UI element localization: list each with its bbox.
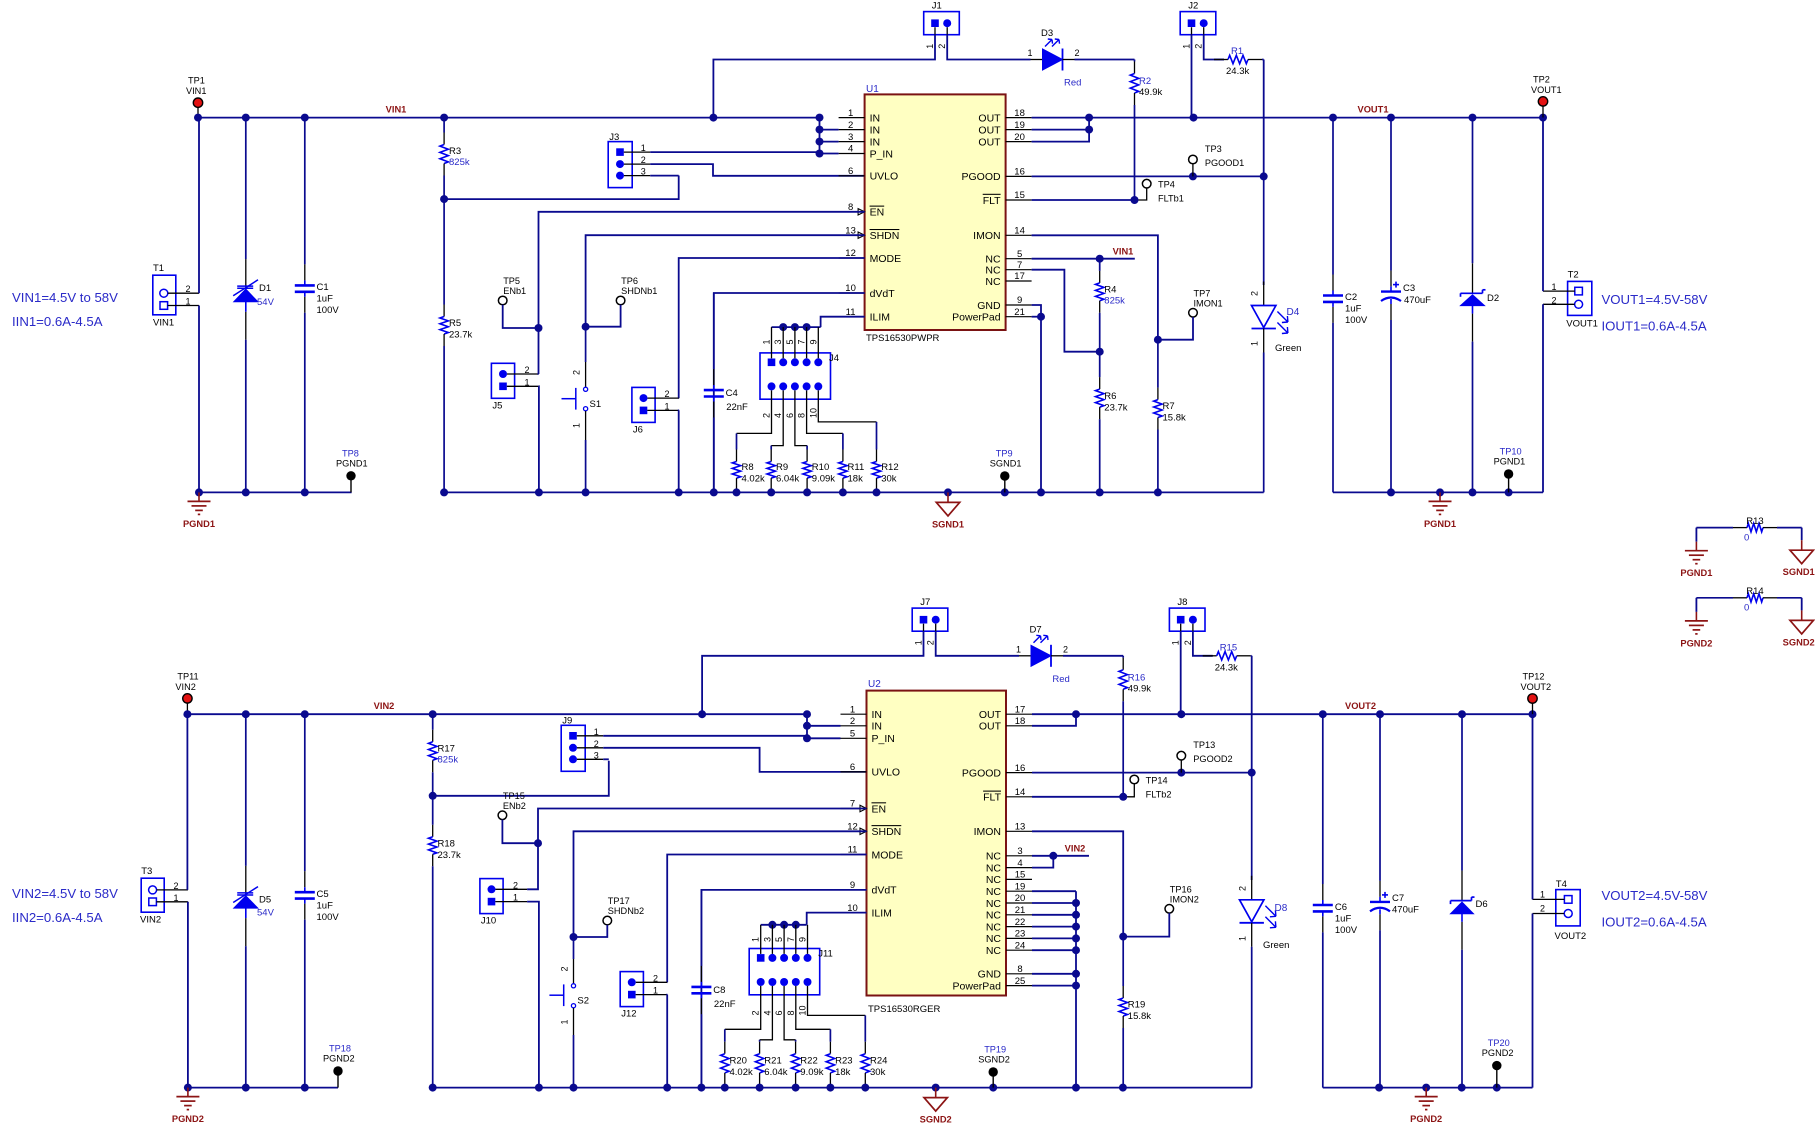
svg-text:R5: R5 bbox=[449, 318, 461, 329]
svg-text:2: 2 bbox=[513, 880, 518, 890]
testpoint TP16 bbox=[1165, 905, 1174, 914]
svg-text:22: 22 bbox=[1015, 917, 1026, 928]
svg-text:TP8: TP8 bbox=[342, 448, 359, 458]
wire PGND1 right rail bbox=[1333, 491, 1543, 493]
wire D3 to R2 bbox=[1063, 59, 1075, 61]
wire J3 pin3 bbox=[650, 175, 679, 177]
connector T3 bbox=[141, 878, 164, 912]
svg-text:NC: NC bbox=[985, 276, 1001, 288]
svg-text:GND: GND bbox=[977, 300, 1001, 312]
svg-text:TP19: TP19 bbox=[984, 1045, 1006, 1055]
svg-text:1: 1 bbox=[173, 893, 178, 903]
svg-text:FLTb2: FLTb2 bbox=[1146, 789, 1172, 799]
svg-text:PGND1: PGND1 bbox=[183, 519, 215, 529]
wire J10 pin1 to SGND2 bbox=[527, 902, 539, 1088]
svg-text:16: 16 bbox=[1014, 167, 1025, 178]
svg-text:NC: NC bbox=[986, 886, 1002, 898]
wire J1 pin1 to VIN1 bbox=[713, 35, 935, 118]
svg-text:6: 6 bbox=[774, 1010, 784, 1015]
svg-text:17: 17 bbox=[1014, 271, 1025, 282]
U2 right pins bbox=[1006, 713, 1032, 715]
svg-text:C3: C3 bbox=[1403, 283, 1415, 294]
svg-text:30k: 30k bbox=[881, 474, 897, 485]
svg-text:19: 19 bbox=[1015, 881, 1026, 892]
svg-text:IOUT1=0.6A-4.5A: IOUT1=0.6A-4.5A bbox=[1602, 319, 1707, 334]
svg-text:NC: NC bbox=[986, 898, 1002, 910]
svg-text:18: 18 bbox=[1014, 108, 1025, 119]
svg-text:10: 10 bbox=[798, 1005, 808, 1015]
svg-text:VIN1: VIN1 bbox=[153, 318, 174, 329]
resistor R15 bbox=[1203, 655, 1213, 657]
ground PGND2 bbox=[187, 1088, 189, 1097]
svg-text:IN: IN bbox=[872, 721, 883, 733]
testpoint TP4 bbox=[1142, 179, 1151, 188]
wire VIN2 rail bbox=[187, 713, 807, 715]
svg-text:VOUT2=4.5V-58V: VOUT2=4.5V-58V bbox=[1602, 888, 1708, 903]
svg-text:VIN2: VIN2 bbox=[140, 914, 161, 925]
LED D8 bbox=[1251, 773, 1253, 880]
svg-text:PGND1: PGND1 bbox=[1494, 457, 1526, 467]
svg-text:49.9k: 49.9k bbox=[1139, 87, 1162, 98]
testpoint TP14 bbox=[1130, 775, 1139, 784]
connector T1 bbox=[153, 275, 176, 315]
svg-text:J10: J10 bbox=[481, 916, 496, 927]
U1 left pins bbox=[839, 117, 865, 119]
svg-text:1uF: 1uF bbox=[1345, 304, 1362, 315]
svg-text:1: 1 bbox=[1027, 48, 1032, 58]
wire R13 right to SGND1 bbox=[1801, 528, 1803, 541]
svg-text:14: 14 bbox=[1015, 787, 1026, 798]
svg-text:1: 1 bbox=[594, 727, 599, 737]
svg-text:VOUT1=4.5V-58V: VOUT1=4.5V-58V bbox=[1602, 292, 1708, 307]
svg-text:VIN1: VIN1 bbox=[186, 86, 206, 96]
svg-text:EN: EN bbox=[870, 207, 885, 219]
svg-text:5: 5 bbox=[774, 937, 784, 942]
svg-text:2: 2 bbox=[1540, 904, 1545, 914]
testpoint TP17 bbox=[603, 916, 612, 925]
resistor R20 bbox=[724, 1029, 726, 1041]
svg-text:R24: R24 bbox=[870, 1056, 887, 1067]
svg-text:470uF: 470uF bbox=[1404, 295, 1431, 306]
wire J8 pin1 to OUT bbox=[1180, 631, 1182, 714]
wire T4 pin1 to VOUT2 bbox=[1532, 714, 1534, 899]
svg-text:23: 23 bbox=[1015, 929, 1026, 940]
svg-text:1: 1 bbox=[513, 893, 518, 903]
svg-text:8: 8 bbox=[797, 413, 807, 418]
svg-text:R3: R3 bbox=[449, 146, 461, 157]
svg-text:UVLO: UVLO bbox=[872, 767, 901, 779]
svg-text:21: 21 bbox=[1014, 307, 1025, 318]
svg-text:PGND1: PGND1 bbox=[1424, 519, 1456, 529]
testpoint TP5 bbox=[498, 296, 507, 305]
svg-text:17: 17 bbox=[1015, 704, 1026, 715]
wire NC19-NC24 join column bbox=[1032, 890, 1076, 892]
svg-text:3: 3 bbox=[594, 750, 599, 760]
svg-text:IIN1=0.6A-4.5A: IIN1=0.6A-4.5A bbox=[12, 314, 103, 329]
svg-text:R21: R21 bbox=[764, 1056, 781, 1067]
wire dVdT2 bbox=[701, 890, 866, 1088]
svg-text:1: 1 bbox=[664, 401, 669, 411]
svg-text:2: 2 bbox=[572, 370, 582, 375]
resistor R18 bbox=[432, 796, 434, 825]
wire J11 pin4 to R21 bbox=[760, 986, 773, 1040]
svg-text:J3: J3 bbox=[609, 132, 619, 143]
svg-text:8: 8 bbox=[1017, 964, 1022, 975]
svg-text:25: 25 bbox=[1015, 976, 1026, 987]
junction dots PGND1 right rail bbox=[1387, 488, 1395, 496]
svg-text:TP18: TP18 bbox=[329, 1044, 351, 1054]
svg-text:PGND2: PGND2 bbox=[1410, 1114, 1442, 1124]
svg-text:PowerPad: PowerPad bbox=[953, 980, 1002, 992]
svg-text:IMON1: IMON1 bbox=[1194, 298, 1223, 308]
svg-text:TP1: TP1 bbox=[188, 76, 205, 86]
svg-text:NC: NC bbox=[986, 862, 1002, 874]
wire FLT2 bbox=[1032, 796, 1123, 798]
svg-text:NC: NC bbox=[986, 874, 1002, 886]
svg-text:IMON: IMON bbox=[974, 826, 1001, 838]
wire J4 pin6 to R10 bbox=[795, 390, 807, 445]
svg-text:6.04k: 6.04k bbox=[764, 1067, 787, 1078]
svg-text:NC: NC bbox=[985, 265, 1001, 277]
svg-text:1uF: 1uF bbox=[1335, 914, 1352, 925]
svg-text:1: 1 bbox=[1551, 282, 1556, 292]
LED D7 bbox=[1031, 645, 1051, 666]
svg-text:dVdT: dVdT bbox=[872, 885, 898, 897]
capacitor C6 bbox=[1322, 714, 1324, 884]
svg-text:VOUT1: VOUT1 bbox=[1566, 319, 1598, 330]
svg-text:2: 2 bbox=[185, 284, 190, 294]
svg-text:IOUT2=0.6A-4.5A: IOUT2=0.6A-4.5A bbox=[1602, 915, 1707, 930]
wire J11 pin8 to R23 bbox=[796, 986, 831, 1029]
svg-text:Green: Green bbox=[1275, 343, 1301, 354]
svg-text:FLTb1: FLTb1 bbox=[1158, 194, 1184, 204]
svg-text:1: 1 bbox=[1016, 644, 1021, 654]
ground PGND1 tie bbox=[1695, 542, 1697, 551]
svg-text:C4: C4 bbox=[726, 388, 738, 399]
wire NC5 VIN1 stub bbox=[1032, 258, 1135, 260]
svg-text:23.7k: 23.7k bbox=[1104, 403, 1127, 414]
svg-text:7: 7 bbox=[797, 339, 807, 344]
svg-text:2: 2 bbox=[1183, 640, 1193, 645]
wire J10 pin2 to ENb2 bbox=[527, 843, 538, 889]
op-amp U1 TPS16530PWPR bbox=[865, 94, 1006, 330]
svg-text:TP12: TP12 bbox=[1523, 672, 1545, 682]
svg-text:TP10: TP10 bbox=[1500, 447, 1522, 457]
capacitor C2 bbox=[1332, 118, 1334, 275]
diode D6 TVS bbox=[1461, 714, 1463, 870]
svg-text:1: 1 bbox=[1171, 640, 1181, 645]
svg-text:VOUT2: VOUT2 bbox=[1555, 931, 1587, 942]
wire GND PowerPad bbox=[1032, 305, 1041, 317]
resistor R6 bbox=[1099, 352, 1101, 377]
svg-text:1: 1 bbox=[751, 937, 761, 942]
svg-text:3: 3 bbox=[848, 132, 853, 143]
svg-text:825k: 825k bbox=[449, 157, 470, 168]
svg-text:SHDNb1: SHDNb1 bbox=[621, 286, 657, 296]
svg-text:6: 6 bbox=[848, 166, 853, 177]
svg-text:1: 1 bbox=[653, 986, 658, 996]
svg-text:MODE: MODE bbox=[870, 253, 902, 265]
svg-text:SGND1: SGND1 bbox=[1783, 567, 1815, 577]
svg-text:2: 2 bbox=[524, 365, 529, 375]
wire GND2 PowerPad2 bbox=[1032, 973, 1076, 975]
svg-text:U1: U1 bbox=[866, 84, 879, 95]
svg-text:20: 20 bbox=[1015, 893, 1026, 904]
resistor R1 bbox=[1214, 59, 1224, 61]
svg-text:R2: R2 bbox=[1139, 76, 1151, 87]
connector J7 bbox=[912, 608, 948, 631]
junction dots VIN1 rail bbox=[194, 114, 202, 122]
wire OUT19 OUT20 join bbox=[1032, 129, 1090, 131]
wire J5 pin2 to ENb1 bbox=[538, 328, 540, 374]
svg-text:TP11: TP11 bbox=[177, 671, 198, 681]
wire R14 right to SGND2 bbox=[1801, 598, 1803, 611]
svg-text:NC: NC bbox=[986, 945, 1002, 957]
wire R14 left to PGND2 bbox=[1695, 598, 1697, 612]
svg-text:J6: J6 bbox=[633, 424, 643, 435]
wire ILIM2 bbox=[807, 913, 867, 925]
connector J3 bbox=[608, 142, 632, 188]
svg-text:6: 6 bbox=[785, 413, 795, 418]
wire NC3 VIN2 stub bbox=[1032, 855, 1089, 857]
wire dVdT1 bbox=[714, 293, 865, 492]
svg-text:T4: T4 bbox=[1556, 879, 1567, 890]
svg-text:2: 2 bbox=[653, 973, 658, 983]
wire T1 pin1 to PGND1 bbox=[198, 306, 200, 493]
svg-text:9: 9 bbox=[798, 937, 808, 942]
svg-text:C1: C1 bbox=[317, 282, 329, 293]
ground PGND1 bbox=[198, 492, 200, 501]
svg-text:R16: R16 bbox=[1128, 672, 1145, 683]
wire J4 pin4 to R9 bbox=[771, 390, 783, 445]
wire ILIM1 bbox=[821, 317, 865, 327]
svg-text:IN: IN bbox=[872, 709, 883, 721]
resistor R7 bbox=[1157, 340, 1159, 388]
resistor R23 bbox=[829, 1029, 831, 1041]
junction dots SGND1 rail bbox=[440, 488, 448, 496]
node UVLO2 junction bbox=[429, 792, 437, 800]
connector J8 bbox=[1169, 608, 1205, 631]
svg-text:0: 0 bbox=[1744, 533, 1749, 544]
svg-text:3: 3 bbox=[1017, 846, 1022, 857]
wire MODE2 bbox=[667, 855, 866, 983]
svg-text:R15: R15 bbox=[1220, 642, 1237, 653]
junction dots VIN2 rail bbox=[183, 710, 191, 718]
svg-text:2: 2 bbox=[173, 881, 178, 891]
resistor R11 bbox=[842, 433, 844, 449]
wire R13 left to PGND1 bbox=[1695, 528, 1697, 542]
svg-text:2: 2 bbox=[848, 120, 853, 131]
wire J11 pin10 to R24 bbox=[808, 986, 866, 1015]
resistor R10 bbox=[806, 446, 808, 450]
junction dots VOUT2 rail bbox=[1177, 710, 1185, 718]
svg-text:TP16: TP16 bbox=[1170, 884, 1192, 894]
resistor R8 bbox=[736, 433, 738, 449]
wire J2 pin1 to OUT bbox=[1191, 35, 1193, 118]
wire J4 top bus bbox=[772, 326, 821, 328]
wire SHDN1 bbox=[586, 235, 865, 327]
svg-text:2: 2 bbox=[1194, 44, 1204, 49]
svg-text:VIN2=4.5V to 58V: VIN2=4.5V to 58V bbox=[12, 886, 118, 901]
svg-text:13: 13 bbox=[1015, 822, 1026, 833]
diode D1 TVS bbox=[245, 118, 247, 260]
svg-text:TP9: TP9 bbox=[996, 449, 1013, 459]
connector J1 bbox=[924, 12, 960, 35]
svg-text:SHDN: SHDN bbox=[870, 230, 900, 242]
connector J2 bbox=[1180, 12, 1216, 35]
svg-text:825k: 825k bbox=[1104, 296, 1125, 307]
svg-text:TP4: TP4 bbox=[1158, 180, 1175, 190]
svg-text:R18: R18 bbox=[438, 838, 455, 849]
svg-text:ENb2: ENb2 bbox=[503, 801, 526, 811]
svg-text:PGOOD2: PGOOD2 bbox=[1193, 754, 1232, 764]
connector J11 header bbox=[749, 949, 820, 995]
svg-text:1uF: 1uF bbox=[317, 294, 334, 305]
svg-text:TP6: TP6 bbox=[621, 276, 638, 286]
wire UVLO net to J3 pin3 bbox=[444, 176, 679, 200]
svg-text:PGND2: PGND2 bbox=[172, 1114, 204, 1124]
svg-text:R1: R1 bbox=[1231, 46, 1243, 57]
svg-text:5: 5 bbox=[850, 729, 855, 740]
svg-text:54V: 54V bbox=[257, 297, 275, 308]
svg-text:MODE: MODE bbox=[872, 849, 904, 861]
svg-text:TP3: TP3 bbox=[1205, 144, 1222, 154]
wire UVLO2 net to J9 pin3 bbox=[433, 761, 609, 796]
svg-text:1: 1 bbox=[1238, 936, 1248, 941]
diode D2 TVS bbox=[1472, 118, 1474, 264]
wire J11 top bus bbox=[761, 924, 807, 926]
svg-text:GND: GND bbox=[978, 969, 1002, 981]
junction dots PGND1 rail bbox=[195, 488, 203, 496]
connector T4 bbox=[1556, 890, 1580, 926]
svg-text:U2: U2 bbox=[868, 679, 881, 690]
svg-text:2: 2 bbox=[1551, 295, 1556, 305]
wire FLT1 bbox=[1032, 199, 1135, 201]
svg-text:ENb1: ENb1 bbox=[503, 286, 526, 296]
ground SGND1 tie bbox=[1801, 540, 1803, 550]
svg-text:J1: J1 bbox=[932, 1, 942, 12]
wire J9 pin2 to UVLO bbox=[603, 748, 866, 772]
svg-text:49.9k: 49.9k bbox=[1128, 683, 1151, 694]
capacitor C4 bbox=[713, 293, 715, 369]
svg-text:SGND2: SGND2 bbox=[1783, 637, 1815, 647]
wire J3 pin2 to UVLO bbox=[650, 164, 864, 176]
svg-text:R13: R13 bbox=[1746, 516, 1763, 527]
svg-text:VIN1: VIN1 bbox=[386, 105, 407, 115]
svg-text:100V: 100V bbox=[317, 912, 340, 923]
svg-text:PGND2: PGND2 bbox=[1680, 638, 1712, 648]
svg-text:19: 19 bbox=[1014, 120, 1025, 131]
capacitor C5 bbox=[304, 714, 306, 871]
wire OUT18 join bbox=[1032, 714, 1076, 726]
svg-text:PGND2: PGND2 bbox=[1482, 1048, 1514, 1058]
resistor R21 bbox=[759, 1040, 761, 1042]
svg-text:2: 2 bbox=[559, 966, 569, 971]
svg-text:SGND1: SGND1 bbox=[932, 519, 964, 529]
svg-text:C7: C7 bbox=[1392, 893, 1404, 904]
connector J4 header bbox=[760, 353, 831, 399]
svg-text:1: 1 bbox=[914, 640, 924, 645]
svg-text:9.09k: 9.09k bbox=[800, 1067, 823, 1078]
resistor R9 bbox=[770, 446, 772, 450]
svg-text:2: 2 bbox=[641, 155, 646, 165]
resistor R2 bbox=[1134, 60, 1136, 62]
connector J6 bbox=[632, 387, 655, 422]
svg-text:2: 2 bbox=[1074, 48, 1079, 58]
svg-text:VIN2: VIN2 bbox=[175, 682, 195, 692]
svg-text:NC: NC bbox=[986, 851, 1002, 863]
wire R15 to PGOOD2 net bbox=[1251, 656, 1253, 773]
wire VOUT1 rail bbox=[1032, 117, 1543, 119]
testpoint TP7 bbox=[1189, 309, 1198, 318]
svg-text:TPS16530PWPR: TPS16530PWPR bbox=[866, 333, 940, 344]
connector J9 bbox=[561, 725, 585, 771]
wire D7 to R16 bbox=[1051, 655, 1063, 657]
svg-text:EN: EN bbox=[872, 803, 887, 815]
svg-text:R4: R4 bbox=[1104, 285, 1116, 296]
svg-text:ILIM: ILIM bbox=[872, 907, 892, 919]
wire T3 pin2 to VIN2 bbox=[186, 714, 188, 890]
svg-text:18: 18 bbox=[1015, 716, 1026, 727]
svg-text:T2: T2 bbox=[1568, 269, 1579, 280]
svg-text:1: 1 bbox=[524, 377, 529, 387]
svg-text:TP2: TP2 bbox=[1533, 74, 1550, 84]
svg-text:Red: Red bbox=[1052, 674, 1069, 685]
svg-text:1: 1 bbox=[1540, 890, 1545, 900]
svg-text:D8: D8 bbox=[1275, 903, 1288, 914]
svg-text:C6: C6 bbox=[1335, 902, 1347, 913]
svg-text:24: 24 bbox=[1015, 940, 1026, 951]
wire J3 pin1 to P_IN bbox=[650, 151, 819, 153]
svg-text:J9: J9 bbox=[562, 716, 572, 727]
switch S2 bbox=[573, 937, 575, 959]
wire J2 pin2 to R1 bbox=[1204, 35, 1224, 60]
svg-text:J4: J4 bbox=[829, 353, 839, 364]
svg-text:18k: 18k bbox=[835, 1067, 851, 1078]
svg-text:PGOOD: PGOOD bbox=[962, 171, 1002, 183]
svg-text:PGND1: PGND1 bbox=[1680, 568, 1712, 578]
svg-text:D4: D4 bbox=[1287, 307, 1300, 318]
svg-text:14: 14 bbox=[1014, 226, 1025, 237]
svg-text:NC: NC bbox=[986, 910, 1002, 922]
svg-text:1: 1 bbox=[559, 1019, 569, 1024]
svg-text:4: 4 bbox=[762, 1010, 772, 1015]
svg-text:IN: IN bbox=[870, 112, 881, 124]
svg-text:TP13: TP13 bbox=[1193, 740, 1215, 750]
U2 left pins bbox=[841, 713, 867, 715]
wire J7 pin1 to VIN2 bbox=[702, 631, 923, 714]
wire T3 pin1 to PGND2 bbox=[187, 902, 189, 1088]
svg-text:5: 5 bbox=[1017, 249, 1022, 260]
resistor R4 bbox=[1099, 259, 1101, 271]
resistor R12 bbox=[876, 422, 878, 450]
svg-text:1uF: 1uF bbox=[317, 901, 334, 912]
svg-text:VOUT1: VOUT1 bbox=[1358, 105, 1389, 115]
ground SGND2 tie bbox=[1801, 610, 1803, 620]
capacitor C1 bbox=[304, 118, 306, 265]
svg-text:2: 2 bbox=[937, 44, 947, 49]
wire J9 pin1 to P_IN bbox=[603, 735, 807, 737]
svg-text:18k: 18k bbox=[848, 474, 864, 485]
wire IMON1 to R7 bbox=[1032, 235, 1158, 339]
svg-text:1: 1 bbox=[1250, 341, 1260, 346]
wire J6 pin2 bbox=[678, 397, 680, 399]
svg-text:S1: S1 bbox=[590, 399, 602, 410]
wire PGND1 rail bbox=[199, 491, 352, 493]
svg-text:2: 2 bbox=[850, 716, 855, 727]
resistor R5 bbox=[443, 199, 445, 304]
svg-text:OUT: OUT bbox=[978, 136, 1001, 148]
